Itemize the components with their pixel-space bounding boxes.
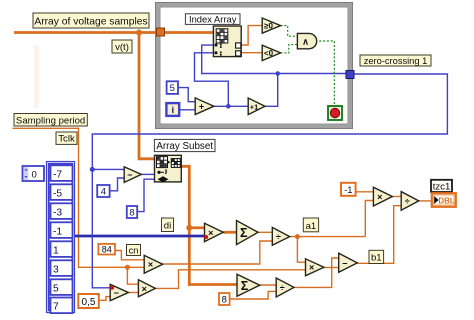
array element 1 bbox=[51, 241, 73, 257]
wire and to stop bbox=[319, 41, 334, 106]
terminal stop condition bbox=[328, 106, 342, 120]
wire -1 constant bbox=[356, 191, 374, 193]
node add junction bbox=[226, 104, 231, 109]
svg-text:tzc1: tzc1 bbox=[433, 181, 451, 192]
svg-text:di: di bbox=[164, 221, 171, 232]
label Sampling period bbox=[14, 114, 87, 127]
op increment bbox=[248, 98, 265, 115]
wire negate out bbox=[392, 196, 401, 198]
svg-text:v(t): v(t) bbox=[115, 42, 129, 53]
svg-text:b1: b1 bbox=[371, 253, 382, 264]
svg-text:-5: -5 bbox=[53, 189, 62, 200]
label Array Subset bbox=[154, 139, 215, 152]
svg-text:−: − bbox=[114, 288, 119, 298]
svg-text:0: 0 bbox=[32, 169, 37, 180]
svg-text:∧: ∧ bbox=[302, 37, 309, 47]
wire zero-crossing net bbox=[92, 74, 447, 288]
comparator greater-equal 0 bbox=[262, 18, 280, 33]
wire Array Subset output bbox=[181, 166, 237, 284]
svg-text:×: × bbox=[208, 228, 213, 238]
svg-text:Sampling period: Sampling period bbox=[16, 115, 85, 126]
svg-text:Σ: Σ bbox=[240, 226, 248, 240]
wire subset to multiply bbox=[189, 226, 204, 229]
op add bbox=[195, 98, 214, 115]
op subtract b1 bbox=[339, 253, 358, 272]
op multiply -1 a1 bbox=[373, 187, 392, 206]
svg-text:0,5: 0,5 bbox=[82, 297, 96, 308]
wire b1 multiply out bbox=[324, 267, 339, 269]
array element 3 bbox=[51, 260, 73, 276]
op Index Array U1 bbox=[213, 26, 241, 57]
wire 4 constant bbox=[110, 178, 125, 191]
svg-text:zero-crossing 1: zero-crossing 1 bbox=[364, 56, 428, 66]
wire 8 constant blue bbox=[137, 179, 155, 211]
node zc junction bbox=[90, 167, 95, 172]
svg-text:cn: cn bbox=[129, 245, 139, 255]
svg-text:÷: ÷ bbox=[280, 283, 285, 293]
op Array Subset U2 bbox=[155, 155, 182, 182]
label v(t) bbox=[112, 40, 132, 53]
svg-text:+: + bbox=[199, 102, 204, 112]
array constant shell bbox=[47, 162, 75, 313]
svg-text:Array Subset: Array Subset bbox=[156, 141, 213, 152]
wire Tclk bbox=[13, 128, 145, 267]
array element -1 bbox=[51, 222, 73, 238]
svg-text:≥0: ≥0 bbox=[264, 22, 273, 31]
svg-text:5: 5 bbox=[170, 83, 175, 94]
constant 5 bbox=[167, 81, 178, 94]
coercion dot di bbox=[204, 235, 208, 239]
array element -5 bbox=[51, 184, 73, 200]
node subset junction bbox=[186, 225, 192, 231]
op subtract index bbox=[124, 167, 141, 183]
label b1 bbox=[369, 250, 384, 263]
svg-text:-1: -1 bbox=[53, 227, 62, 238]
wire v(t) trunk bbox=[14, 31, 213, 34]
op multiply 84 Tclk bbox=[144, 255, 163, 273]
label di bbox=[162, 218, 174, 232]
label cn bbox=[127, 245, 141, 256]
svg-text:7: 7 bbox=[53, 302, 59, 313]
comparator less 0 bbox=[262, 45, 280, 60]
op divide2 bbox=[276, 278, 294, 297]
wire ge0 to and bbox=[281, 26, 298, 37]
wire 84 constant bbox=[115, 251, 144, 260]
wire mean to subtract bbox=[294, 258, 339, 287]
svg-text:a1: a1 bbox=[306, 221, 317, 232]
svg-text:Σ: Σ bbox=[241, 279, 249, 293]
svg-text:×: × bbox=[142, 284, 147, 294]
array element 5 bbox=[51, 279, 73, 295]
tunnel v(t) input bbox=[157, 28, 165, 36]
svg-text:×: × bbox=[309, 263, 314, 273]
tunnel zero-crossing output bbox=[346, 71, 354, 79]
wire tzc1 out bbox=[419, 200, 432, 202]
wire product to b1 multiply bbox=[155, 270, 305, 289]
svg-text:<0: <0 bbox=[264, 49, 274, 58]
op subtract half bbox=[110, 284, 128, 300]
wire a1 horizontal bbox=[290, 236, 366, 238]
wire a1 up to multiply bbox=[365, 201, 373, 237]
svg-text:1: 1 bbox=[53, 246, 59, 257]
wire v(t) to Array Subset bbox=[139, 33, 155, 159]
wire di array bbox=[75, 235, 205, 238]
svg-text:i: i bbox=[171, 105, 174, 116]
svg-text:84: 84 bbox=[102, 245, 112, 255]
constant 8 orange bbox=[219, 293, 230, 306]
wire element2 out bbox=[241, 52, 262, 54]
svg-text:-7: -7 bbox=[53, 170, 62, 181]
wire sum to divide bbox=[258, 231, 272, 233]
wire a1 down branch bbox=[297, 237, 305, 263]
wire 5 constant bbox=[178, 88, 195, 102]
array element -7 bbox=[51, 165, 73, 181]
label Array of voltage samples bbox=[33, 13, 149, 28]
wire add out bbox=[214, 105, 248, 107]
svg-text:−: − bbox=[342, 258, 347, 268]
svg-text:-3: -3 bbox=[53, 208, 62, 219]
terminal i bbox=[166, 103, 179, 116]
while loop bbox=[156, 3, 353, 129]
wire 0,5 constant bbox=[99, 297, 110, 301]
array index display bbox=[23, 166, 45, 181]
wire start index bbox=[141, 173, 154, 175]
node Tclk junction bbox=[125, 265, 130, 270]
node a1 junction bbox=[295, 234, 300, 239]
wire index i+6 bbox=[202, 45, 346, 73]
op divide tzc bbox=[401, 192, 419, 211]
constant 4 bbox=[97, 185, 109, 198]
svg-text:Tclk: Tclk bbox=[58, 134, 75, 145]
wire zc to subtract bbox=[92, 168, 124, 170]
svg-text:÷: ÷ bbox=[405, 196, 410, 206]
node increment junction bbox=[275, 71, 280, 76]
svg-text:Index Array: Index Array bbox=[189, 13, 237, 24]
wire increment out bbox=[265, 74, 278, 107]
array element 7 bbox=[51, 298, 73, 314]
op multiply a1 t bbox=[306, 259, 324, 276]
wire lt0 to and bbox=[281, 45, 298, 53]
wire b1 bbox=[357, 206, 401, 264]
svg-text:4: 4 bbox=[101, 187, 106, 198]
svg-text:×: × bbox=[377, 192, 382, 202]
label zero-crossing 1 bbox=[360, 55, 431, 66]
op divide1 bbox=[272, 227, 289, 245]
label tzc1 bbox=[431, 180, 452, 193]
wire sum2 to divide2 bbox=[260, 284, 277, 286]
gate AND bbox=[297, 33, 316, 48]
indicator tzc1 DBL bbox=[432, 193, 456, 207]
wire index i+5 bbox=[195, 53, 229, 107]
op multiply v di bbox=[205, 223, 224, 241]
coercion dot zc bbox=[110, 286, 114, 290]
op multiply Tclk zc bbox=[138, 280, 155, 297]
wire element1 out bbox=[241, 26, 262, 45]
constant 8 blue bbox=[127, 206, 137, 219]
faint artifact band bbox=[34, 45, 39, 108]
svg-text:−: − bbox=[127, 170, 132, 180]
svg-text:+1: +1 bbox=[250, 102, 258, 111]
svg-text:×: × bbox=[148, 260, 153, 270]
op sum2 bbox=[237, 274, 260, 296]
svg-text:-1: -1 bbox=[344, 185, 352, 196]
label Index Array bbox=[185, 13, 240, 24]
svg-text:DBL: DBL bbox=[438, 197, 455, 206]
label a1 bbox=[303, 218, 318, 232]
svg-text:8: 8 bbox=[222, 295, 227, 306]
constant 84 bbox=[98, 244, 115, 255]
wire i terminal bbox=[179, 109, 195, 111]
wire 8 constant orange bbox=[230, 291, 277, 299]
svg-text:5: 5 bbox=[53, 284, 59, 295]
label Tclk bbox=[56, 132, 77, 145]
op sum1 bbox=[237, 221, 259, 245]
node v(t) junction bbox=[136, 30, 142, 36]
wire Tclk down branch bbox=[127, 267, 138, 284]
wire cn to divisor bbox=[163, 241, 273, 264]
wire product array to sum bbox=[223, 231, 236, 234]
array element -3 bbox=[51, 203, 73, 219]
constant -1 bbox=[341, 183, 356, 196]
svg-text:Array of voltage samples: Array of voltage samples bbox=[34, 16, 147, 27]
constant 0,5 bbox=[78, 294, 99, 308]
svg-text:8: 8 bbox=[129, 208, 134, 219]
svg-text:3: 3 bbox=[53, 265, 59, 276]
svg-text:÷: ÷ bbox=[276, 232, 281, 242]
wire subtract out bbox=[128, 292, 138, 294]
